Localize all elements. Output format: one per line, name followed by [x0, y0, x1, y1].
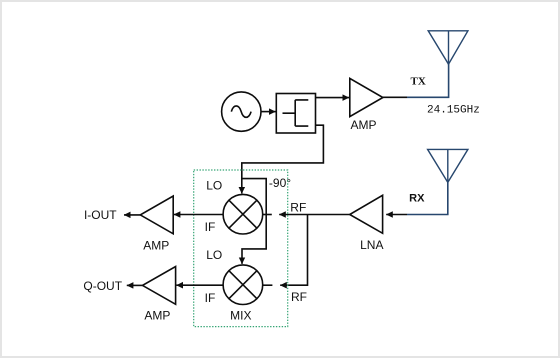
wire TX amp to antenna feed	[383, 96, 407, 98]
wire splitter to TX amp	[316, 97, 349, 99]
amplifier U2 (TX AMP)	[350, 78, 383, 116]
wire Q amplifier output	[127, 284, 143, 286]
mixer U4 (MIX1)	[223, 194, 272, 234]
svg-text:AMP: AMP	[350, 118, 376, 132]
wire oscillator to splitter	[261, 111, 275, 113]
RX antenna feed (navy)	[407, 182, 448, 214]
svg-text:I-OUT: I-OUT	[84, 208, 117, 222]
svg-text:TX: TX	[411, 75, 426, 87]
wire I amplifier output	[124, 214, 140, 216]
svg-text:LO: LO	[206, 248, 222, 262]
svg-text:AMP: AMP	[144, 309, 170, 323]
amplifier U3 (LNA)	[350, 195, 383, 233]
svg-text:IF: IF	[205, 291, 216, 305]
TX antenna feed (navy)	[407, 64, 449, 98]
oscillator OSC	[222, 92, 261, 131]
wire RF branch down to mixer2	[280, 215, 307, 286]
svg-text:IF: IF	[205, 220, 216, 234]
wire mixer1 IF to I amplifier	[174, 214, 223, 216]
amplifier U7 (Q AMP)	[143, 267, 176, 305]
svg-text:RX: RX	[409, 193, 425, 205]
TX antenna ANT1	[428, 31, 468, 64]
svg-text:LNA: LNA	[360, 238, 383, 252]
wire LNA to mixer1 RF input	[279, 214, 350, 216]
wire RX to LNA	[386, 214, 407, 216]
svg-text:LO: LO	[206, 179, 222, 193]
svg-text:MIX: MIX	[230, 309, 251, 323]
svg-text:RF: RF	[290, 201, 306, 215]
mixer U5 (MIX2)	[223, 265, 272, 305]
power splitter U1	[276, 94, 315, 134]
wire mixer2 IF to Q amplifier	[176, 284, 223, 286]
wire LO feed from splitter down to mixer1	[242, 125, 324, 193]
mixer block boundary (dashed green)	[194, 170, 288, 327]
svg-text:24.15GHz: 24.15GHz	[427, 105, 480, 117]
svg-text:RF: RF	[291, 290, 307, 304]
amplifier U6 (I AMP)	[140, 196, 173, 234]
RX antenna ANT2	[428, 149, 468, 182]
wire -90 degree branch to mixer2 LO	[242, 179, 266, 264]
svg-text:Q-OUT: Q-OUT	[83, 279, 122, 293]
svg-text:AMP: AMP	[143, 238, 169, 252]
